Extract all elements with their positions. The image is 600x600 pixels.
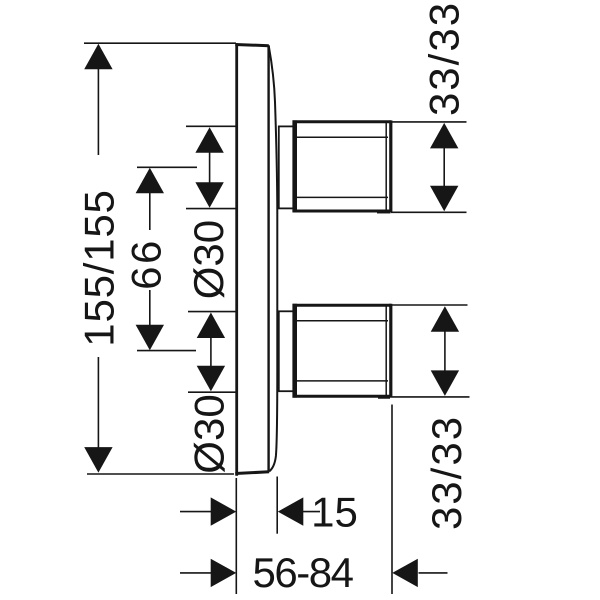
arrowhead 33/33 bottom up [431,306,459,332]
arrowhead 155/155 down [84,447,112,473]
dimension 33/33 top shaft [443,142,445,193]
extension line vertical at plate face (x 277) [276,477,278,534]
dimension dia30 top extension line upper [186,125,236,127]
arrowhead 33/33 top up [430,123,458,148]
dimension 15 tail left [180,511,213,513]
arrowhead 56-84 pointing right [211,559,237,587]
arrowhead dia30 bottom down [197,366,225,392]
svg-text:33/33: 33/33 [421,1,468,116]
extension line vertical at plate back (x 236) [235,478,237,594]
bottom handle top edge [293,304,391,307]
extension line bottom left (155/155 bottom) [87,473,234,475]
dimension dia30 bottom extension line upper [188,311,236,313]
arrowhead 33/33 top down [430,186,458,212]
dimension 56-84 tail right [419,572,448,574]
arrowhead 56-84 pointing left [392,559,418,587]
escutcheon plate left edge [235,43,238,476]
dimension 155/155 shaft upper segment [97,60,99,155]
dimension 33/33 top extension line upper [391,121,467,123]
svg-text:56-84: 56-84 [253,549,354,596]
escutcheon plate top edge [235,45,268,46]
dimension 66 extension line top [137,166,197,168]
extension line top left (155/155 top) [84,42,236,44]
top handle neck sleeve [279,126,295,208]
svg-text:Ø30: Ø30 [185,220,232,299]
dimension 56-84 tail left [180,572,211,574]
top handle bottom rim step [377,212,391,214]
dimension 33/33 top extension line lower [391,211,467,213]
dimension 33/33 bottom extension line lower [391,396,470,398]
arrowhead dia30 top up [195,127,223,153]
dimension 66 extension line bottom [137,350,196,352]
escutcheon plate inner right edge [267,45,269,472]
top handle top edge [293,120,391,123]
dimension dia30 top extension line lower [186,208,236,210]
top handle chamfer line lower [297,196,389,198]
arrowhead 155/155 up [84,44,112,70]
arrowhead dia30 bottom up [197,313,225,339]
arrowhead 66 up [136,168,164,194]
dimension 15 tail right [301,511,320,513]
svg-text:Ø30: Ø30 [186,394,233,473]
dimension dia30 bottom extension line lower [188,391,236,393]
dimension 33/33 bottom extension line upper [392,304,468,306]
svg-text:15: 15 [311,489,358,536]
bottom handle left edge [292,304,297,398]
arrowhead 15 pointing left [278,497,304,525]
svg-text:66: 66 [123,238,170,290]
dimension 33/33 bottom shaft [444,326,446,376]
bottom handle neck sleeve [279,311,295,391]
escutcheon plate curved outer face [269,46,278,471]
top handle left edge [292,120,297,212]
extension line vertical at handle face (x 392) [391,405,393,595]
escutcheon plate bottom edge [235,472,269,474]
top handle bottom edge [293,210,391,213]
svg-text:155/155: 155/155 [75,189,122,346]
top handle right edge [389,120,392,212]
bottom handle bottom rim step [378,397,390,399]
dimension 66 shaft upper segment [149,185,151,230]
arrowhead 15 pointing right [211,497,237,525]
dimension 66 shaft lower segment [149,290,151,334]
bottom handle right edge [389,304,392,398]
arrowhead 66 down [136,325,164,351]
top handle chamfer line right [385,123,387,210]
bottom handle bottom edge [293,395,391,398]
dimension dia30 top shaft [209,145,211,190]
svg-text:33/33: 33/33 [423,415,470,530]
arrowhead 33/33 bottom down [431,370,459,396]
bottom handle chamfer line lower [297,380,389,382]
top handle chamfer line upper [297,136,389,138]
bottom handle chamfer line upper [297,320,389,322]
arrowhead dia30 top down [195,182,223,208]
dimension dia30 bottom shaft [210,330,212,374]
bottom handle chamfer line right [385,306,387,395]
dimension 155/155 shaft lower segment [97,357,99,455]
